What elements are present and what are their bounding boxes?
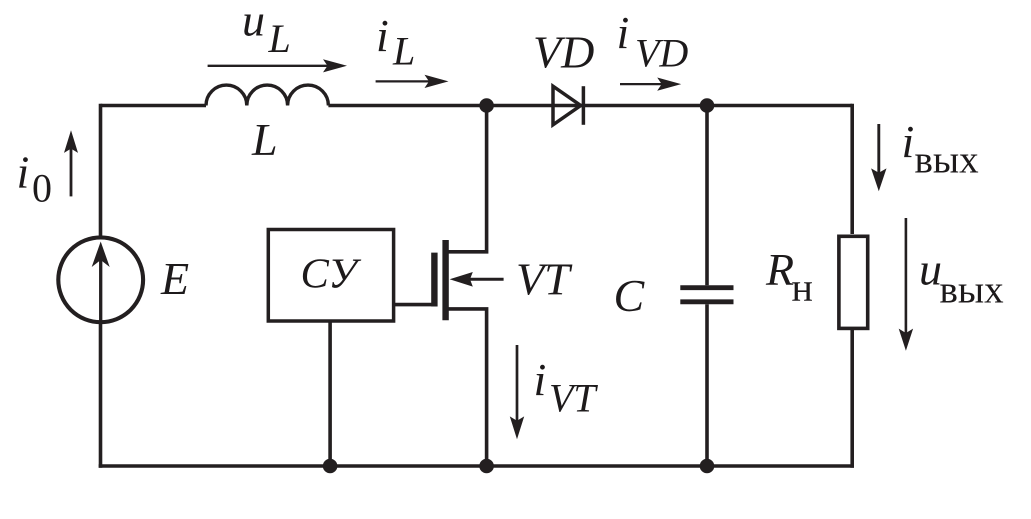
svg-text:R: R	[765, 244, 794, 295]
svg-text:вых: вых	[915, 138, 980, 181]
svg-text:i: i	[617, 7, 630, 58]
svg-text:вых: вых	[940, 269, 1005, 312]
svg-text:i: i	[17, 147, 30, 198]
svg-text:VD: VD	[533, 26, 594, 77]
svg-text:VT: VT	[516, 254, 573, 305]
svg-text:i: i	[902, 116, 915, 167]
svg-text:L: L	[268, 16, 291, 61]
svg-text:u: u	[242, 0, 265, 46]
svg-text:0: 0	[32, 165, 52, 210]
svg-text:i: i	[534, 354, 547, 405]
svg-text:СУ: СУ	[301, 250, 362, 297]
svg-text:E: E	[160, 253, 189, 304]
svg-text:L: L	[251, 114, 278, 165]
svg-text:i: i	[376, 10, 389, 61]
svg-text:C: C	[614, 270, 646, 321]
svg-text:VT: VT	[549, 375, 598, 420]
svg-text:VD: VD	[635, 31, 688, 76]
svg-text:L: L	[392, 29, 415, 74]
svg-text:н: н	[792, 264, 813, 309]
